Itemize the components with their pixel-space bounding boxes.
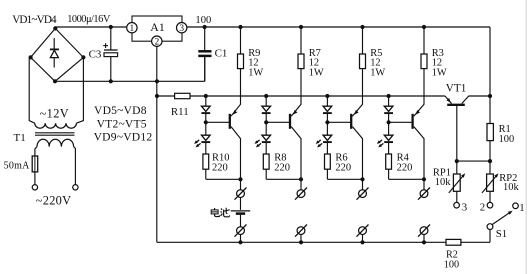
svg-text:220: 220 (274, 162, 290, 173)
svg-text:2: 2 (480, 202, 485, 214)
label ~12V (40, 107, 69, 121)
potentiometer RP1 10k (449, 161, 465, 202)
label VD9~VD12 (94, 131, 153, 144)
wire chain 2 top (265, 96, 267, 106)
battery cell (231, 198, 250, 227)
capacitor C1 (198, 27, 211, 81)
svg-text:50mA: 50mA (4, 161, 31, 172)
wire secondary left lead (29, 57, 35, 123)
label VT2~VT5 (97, 117, 147, 130)
label VD5~VD8 (94, 104, 147, 117)
resistor R1 100 (487, 96, 493, 161)
resistor R11 (175, 93, 190, 98)
transistor VT2 (230, 69, 241, 180)
svg-text:VD9~VD12: VD9~VD12 (94, 131, 153, 144)
label R11 (171, 106, 189, 118)
svg-text:1: 1 (130, 24, 135, 34)
wire chain 4 top (388, 96, 390, 106)
label C3 (89, 49, 102, 61)
svg-text:R11: R11 (171, 106, 189, 118)
svg-text:VT1: VT1 (446, 83, 467, 95)
wire A1 pin2 to ground (156, 46, 158, 81)
pin 1 of A1 (130, 24, 135, 34)
diode VD5 (201, 106, 210, 113)
label RP1 (433, 167, 451, 188)
label R10 (212, 152, 230, 173)
node bias chain 4 (387, 94, 391, 98)
contact bottom channel 1 (235, 225, 247, 245)
contact top channel 1 (235, 179, 247, 199)
wire diode to node 4 (387, 113, 391, 124)
transformer T1 core (35, 133, 75, 135)
page right edge (525, 0, 527, 274)
label S1 (496, 228, 507, 240)
contact top channel 3 (357, 179, 369, 199)
svg-text:A1: A1 (150, 20, 165, 34)
transformer T1 primary winding (37, 139, 74, 146)
wire fuse to plug left (34, 172, 36, 185)
LED VD9 (194, 122, 210, 147)
contact bottom channel 3 (357, 225, 369, 245)
terminal 3 (454, 202, 467, 214)
wire left return rail (157, 81, 490, 242)
contact bottom channel 2 (295, 225, 307, 245)
resistor R3 12 1W (421, 25, 427, 69)
transformer T1 secondary winding (35, 123, 77, 128)
fuse 50mA (32, 156, 38, 172)
label R5 (370, 48, 385, 79)
svg-text:100: 100 (499, 134, 515, 145)
svg-text:2: 2 (154, 38, 159, 48)
wire ground line (55, 57, 205, 81)
label C1 (215, 47, 228, 59)
label R9 (248, 48, 263, 79)
label A1 (150, 20, 165, 34)
node VT1 collector (488, 94, 492, 98)
node ground-C3 (109, 79, 113, 83)
terminal 2 (480, 202, 493, 214)
svg-text:220: 220 (397, 162, 413, 173)
wire positive top rail (55, 27, 490, 96)
transistor VT4 (351, 69, 362, 180)
label VD1~VD4 (12, 14, 57, 26)
LED VD10 (255, 122, 271, 147)
resistor R6 220 (325, 142, 365, 181)
resistor R4 220 (386, 142, 426, 181)
svg-text:C3: C3 (89, 49, 102, 61)
potentiometer RP2 10k (482, 161, 498, 202)
terminal mains left (32, 185, 37, 190)
capacitor C3 1000u/16V (103, 25, 117, 81)
node 100 (203, 25, 207, 29)
contact bottom channel 4 (418, 225, 430, 245)
wire diode to node 2 (264, 113, 268, 124)
svg-text:10k: 10k (503, 182, 520, 193)
resistor R2 100 (446, 239, 461, 245)
svg-text:~12V: ~12V (40, 107, 69, 121)
svg-text:100: 100 (444, 260, 459, 271)
wire base VT2 (206, 121, 230, 123)
wire bias line (155, 94, 445, 98)
wire diode to node 1 (204, 113, 208, 124)
svg-text:1W: 1W (309, 68, 324, 79)
svg-text:VD5~VD8: VD5~VD8 (94, 104, 147, 117)
node bias chain 1 (204, 94, 208, 98)
svg-text:220: 220 (212, 162, 228, 173)
terminal mains right (73, 185, 78, 190)
wire base link (455, 159, 492, 163)
svg-text:C1: C1 (215, 47, 228, 59)
wire base VT5 (389, 121, 413, 123)
pin 3 of A1 (179, 24, 184, 34)
label RP2 (499, 173, 519, 193)
wire chain 3 top (326, 96, 328, 106)
diode VD6 (262, 106, 271, 113)
svg-text:VT2~VT5: VT2~VT5 (97, 117, 147, 130)
svg-text:T1: T1 (14, 132, 26, 144)
svg-text:10k: 10k (435, 177, 452, 188)
resistor R7 12 1W (298, 25, 304, 69)
transistor VT1 (445, 96, 490, 161)
label 100 (195, 15, 211, 26)
diode VD7 (323, 106, 332, 113)
resistor R5 12 1W (360, 25, 366, 69)
svg-text:VD1~VD4: VD1~VD4 (12, 14, 57, 26)
label R8 (274, 152, 290, 173)
wire base VT3 (266, 121, 290, 123)
svg-text:100: 100 (195, 15, 211, 26)
bridge rectifier VD1~VD4 (29, 28, 86, 83)
LED VD12 (377, 122, 393, 147)
label VT1 (446, 83, 467, 95)
label R6 (335, 152, 351, 173)
label ~220V (36, 194, 72, 208)
node bias chain 3 (325, 94, 329, 98)
label R2 (444, 250, 459, 271)
label R7 (309, 48, 324, 79)
label 50mA (4, 161, 31, 172)
wire chain 1 top (205, 96, 207, 106)
svg-text:1W: 1W (248, 68, 263, 79)
svg-text:1W: 1W (370, 68, 385, 79)
LED VD11 (316, 122, 332, 147)
resistor R9 12 1W (238, 25, 244, 69)
label T1 (14, 132, 26, 144)
wire primary right lead (74, 147, 76, 185)
wire diode to node 3 (325, 113, 329, 124)
label battery (dianchi) (211, 208, 230, 217)
node bridge + output (53, 26, 57, 30)
diode VD8 (384, 106, 393, 113)
label R1 (499, 124, 515, 145)
svg-text:S1: S1 (496, 228, 507, 240)
regulator U A1 (127, 16, 187, 46)
svg-text:1: 1 (519, 202, 524, 214)
transistor VT3 (290, 69, 301, 180)
svg-text:1000μ/16V: 1000μ/16V (67, 14, 111, 25)
resistor R10 220 (203, 142, 243, 181)
node bias chain 2 (264, 94, 268, 98)
pin 2 of A1 (154, 38, 159, 48)
terminal 1 (513, 202, 525, 214)
svg-text:3: 3 (462, 202, 467, 214)
label R3 (432, 48, 447, 79)
wire primary left lead (35, 147, 37, 156)
svg-text:3: 3 (179, 24, 184, 34)
wire base VT4 (327, 121, 351, 123)
contact top channel 2 (295, 179, 307, 199)
resistor R8 220 (263, 142, 303, 181)
label R4 (397, 152, 413, 173)
contact top channel 4 (418, 179, 430, 199)
svg-text:1W: 1W (432, 68, 447, 79)
transistor VT5 (413, 69, 424, 180)
switch S1 (487, 211, 512, 243)
label 1000u/16V (67, 14, 111, 25)
svg-text:220: 220 (335, 162, 351, 173)
svg-text:~220V: ~220V (36, 194, 72, 208)
node ground-A1pin2 (155, 79, 159, 83)
wire secondary right lead (76, 57, 83, 123)
